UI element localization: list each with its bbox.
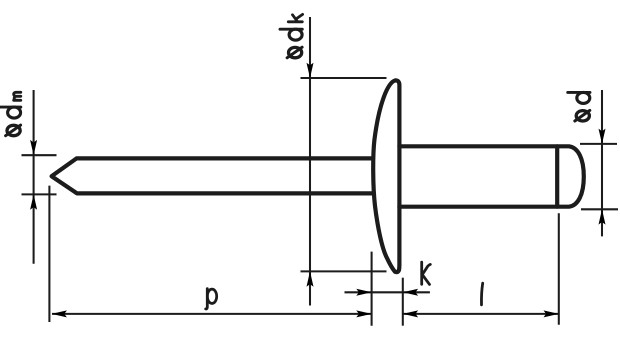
dim od: vertical dimension line — [601, 90, 603, 236]
dim od_k: top arrow (down) — [307, 63, 314, 78]
label p — [206, 289, 217, 309]
dim od: top extension line (body top) — [580, 143, 617, 145]
rivet head / flange dome (side profile) — [373, 80, 399, 272]
label od (rotated) — [568, 92, 590, 121]
dim k: dimension line — [345, 291, 430, 293]
dim k: right arrow (outside, points left) — [403, 289, 418, 296]
dim od: bottom extension line (body bottom) — [581, 208, 618, 210]
dim l: left arrow (points left) — [403, 310, 418, 317]
dim od: top arrow (down) — [599, 129, 606, 144]
dim p: dimension line — [52, 313, 372, 315]
dim od_m: bottom extension line — [22, 193, 57, 195]
dim od: bottom arrow (up) — [599, 209, 606, 224]
rivet body (sleeve) outer profile with rounded end cap — [399, 146, 583, 206]
dim l: right extension line — [558, 213, 560, 325]
label l — [481, 283, 482, 305]
dim od_k: top extension line (flange top) — [301, 77, 387, 79]
dim l: dimension line — [403, 313, 559, 315]
dim k: left extension line — [371, 252, 373, 326]
dim od_m: bottom arrow (up) — [30, 194, 37, 209]
rivet body end inner line — [555, 146, 559, 206]
mandrel (rivet pin with pointed tip) — [52, 158, 372, 193]
dim od_k: vertical dimension line — [309, 17, 311, 306]
dim od_m: top arrow (down) — [30, 140, 37, 155]
dim p: left arrow (points left) — [52, 310, 67, 317]
dim od_m: top extension line — [22, 154, 57, 156]
dim p: right arrow (points right) — [356, 310, 371, 317]
dim p: left extension line — [48, 186, 50, 322]
label k — [422, 262, 431, 284]
dim od_k: bottom extension line (flange bottom) — [301, 270, 387, 272]
label od_m (rotated) — [0, 92, 21, 135]
dim l: right arrow (points right) — [544, 310, 559, 317]
dim k: left arrow (outside, points right) — [356, 289, 371, 296]
dim k: right extension line — [402, 278, 404, 326]
dim od_k: bottom arrow (up) — [307, 271, 314, 286]
label od_k (rotated) — [280, 14, 303, 57]
dim od_m: vertical dimension line — [33, 90, 35, 264]
